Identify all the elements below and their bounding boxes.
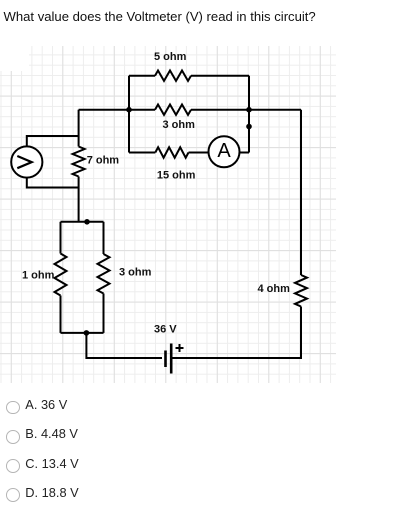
wire box right lower lead [103,294,105,333]
voltmeter V [11,146,42,177]
wire left rail upper [78,110,80,147]
resistor 3 ohm (box) [98,254,110,294]
node D (box top) [84,219,90,225]
wire left rail lower [78,177,80,222]
resistor 3 ohm (middle branch) [155,105,191,115]
svg-text:7 ohm: 7 ohm [87,155,120,167]
resistor 4 ohm [295,275,307,307]
node B (parallel net right) [246,107,252,113]
wire parallel net left side [128,76,130,153]
wire ammeter to right side [239,152,249,154]
resistor 15 ohm [155,147,188,157]
wire right rail upper [300,110,302,275]
wire voltmeter bottom lead [27,178,79,188]
wire bottom branch left lead [129,152,155,154]
node E (box bottom) [84,330,90,336]
ammeter A [209,136,240,167]
wire middle branch left lead [129,109,155,111]
wire parallel net right side [248,76,250,153]
wire top branch right [191,75,249,77]
resistor 1 ohm [55,254,67,296]
wire right rail lower [172,307,302,359]
node C (right side junction) [246,124,252,130]
wire box left lower lead [60,296,62,333]
resistor 7 ohm [73,147,85,177]
wire box right upper lead [103,222,105,254]
wire top branch left [129,75,155,77]
svg-text:3 ohm: 3 ohm [163,119,196,131]
wire node B to right rail [249,109,301,111]
svg-text:5 ohm: 5 ohm [154,51,187,63]
wire box left upper lead [60,222,62,254]
svg-text:3 ohm: 3 ohm [119,267,152,279]
svg-text:1 ohm: 1 ohm [22,270,55,282]
wire box bottom [61,332,104,334]
battery 36 V [166,344,184,374]
svg-text:A: A [217,140,231,162]
wire box bottom to battery [86,333,162,358]
resistor 5 ohm [155,71,191,81]
svg-text:15 ohm: 15 ohm [157,170,196,182]
svg-text:36 V: 36 V [154,324,177,336]
wire box top [61,221,104,223]
node A (parallel net left) [126,107,132,113]
wire middle branch right lead [191,109,249,111]
wire voltmeter top lead [27,136,79,146]
wire 15 ohm to ammeter [189,152,209,154]
svg-text:4 ohm: 4 ohm [258,283,291,295]
wire middle branch left [79,109,129,111]
